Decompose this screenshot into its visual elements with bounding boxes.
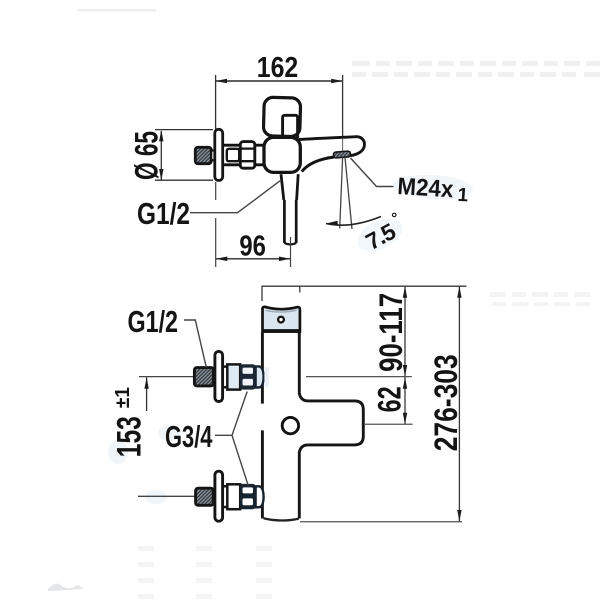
body column left edge [261, 333, 264, 519]
extension line left lower (to 96 dim) [215, 182, 217, 267]
lever handle (top) [263, 97, 300, 137]
lower union: 153 extension line [138, 495, 196, 497]
aerator (hatched) [333, 151, 350, 158]
handle neck [283, 115, 298, 139]
96 extension line [290, 237, 292, 267]
upper union: 153 extension line [139, 376, 196, 378]
7.5 degree arc [326, 217, 381, 226]
shower outlet pipe [284, 200, 296, 243]
7.5 degree extension lines [340, 158, 352, 230]
upper union collar to body [256, 366, 264, 387]
tube nut-body [255, 145, 265, 165]
body column right edge [298, 333, 301, 519]
upper union step [227, 364, 240, 389]
M24x1 leader [351, 158, 394, 187]
wall stub left [261, 286, 263, 301]
svg-text:276-303: 276-303 [428, 354, 464, 451]
extension line spout centre [364, 423, 413, 425]
svg-text:M24x: M24x [397, 173, 455, 203]
watermark blue smudge under M24x1 [392, 173, 473, 201]
7.5 degree text [359, 209, 409, 255]
lower union nut [240, 484, 256, 509]
handle screw circle [282, 417, 298, 433]
wall nipple (hatched) top view [195, 147, 211, 163]
link nipple-flange [211, 151, 216, 161]
wall flange (side) top view [215, 129, 223, 180]
lower union collar to body [256, 486, 264, 507]
spout underside [302, 157, 334, 172]
watermark blue smudge under 7.5 [352, 212, 407, 258]
pipe bottom [284, 243, 296, 245]
svg-text:153: 153 [111, 416, 149, 457]
extension line right of 162 down to spout [342, 75, 344, 137]
escutcheon plate [263, 307, 300, 332]
M24x1 label [397, 173, 470, 206]
lower union neck [223, 486, 228, 507]
faint watermark dash rows mid-right [490, 292, 590, 306]
svg-text:1: 1 [457, 185, 469, 207]
dimension 162 line with arrows [216, 80, 343, 82]
svg-text:96: 96 [239, 230, 266, 262]
upper union neck [223, 367, 228, 388]
spout boss (side profile) [299, 393, 363, 452]
svg-text:±1: ±1 [112, 387, 134, 408]
adapter tube [223, 145, 241, 165]
adapter socket [227, 149, 239, 161]
plate top edge shadow [266, 310, 297, 312]
column bottom edge [264, 518, 299, 520]
upper union wall nipple (hatched) [194, 368, 213, 386]
top reference line [262, 285, 467, 287]
mixer body (top view) [264, 137, 300, 172]
lower union step [227, 484, 240, 509]
extension line union centre [306, 376, 412, 378]
watermark blue smudge lower union left [145, 490, 167, 504]
svg-text:Ø 65: Ø 65 [129, 131, 165, 180]
bottom extension line [300, 521, 462, 523]
faint squiggle bottom-left [48, 584, 84, 591]
dimension 153 line [146, 377, 148, 411]
upper union nut (dark) [240, 364, 256, 389]
G3/4 leader forked [215, 392, 248, 486]
svg-text:G3/4: G3/4 [165, 419, 213, 454]
lower union flange [215, 471, 223, 521]
upper union flange [215, 351, 223, 401]
shower outlet taper [281, 174, 298, 200]
G1/2 leader [190, 181, 280, 213]
dimension diameter 65 [155, 130, 213, 181]
faint watermark dash grid bottom [138, 546, 272, 599]
union nut top view [240, 142, 255, 169]
spout [299, 137, 364, 156]
faint watermark line top-left [78, 9, 156, 12]
wall stub right [299, 286, 301, 292]
svg-text:G1/2: G1/2 [137, 196, 190, 231]
dimension 96 [216, 258, 290, 260]
extension line left of 162 [215, 75, 217, 130]
dimension 90-117 / 62 line [404, 286, 406, 424]
svg-text:G1/2: G1/2 [128, 304, 179, 339]
162 extension through spout [342, 139, 344, 153]
lower union wall nipple (hatched) [196, 488, 214, 505]
watermark blue smudge under G3/4 [158, 425, 180, 441]
svg-text:90-117: 90-117 [373, 293, 409, 372]
svg-text:62: 62 [372, 386, 408, 412]
plate bottom bar [263, 329, 300, 333]
svg-text:162: 162 [257, 52, 299, 84]
faint watermark dash rows top-right [352, 61, 600, 77]
G1/2 leader (bottom) [184, 320, 206, 367]
dimension 276-303 line [458, 286, 460, 521]
plate screw [277, 316, 285, 324]
watermark blue smudge under 153 [108, 440, 128, 464]
